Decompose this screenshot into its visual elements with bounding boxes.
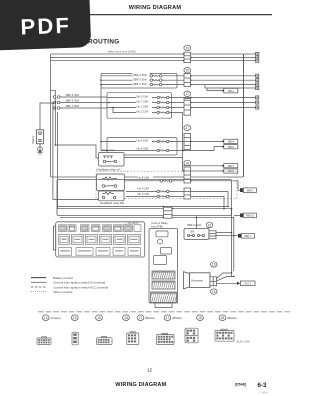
svg-text:No.6 15A: No.6 15A — [137, 146, 149, 150]
generator G1 — [184, 272, 211, 289]
connector icon 18b — [215, 329, 234, 341]
horn relay — [99, 153, 125, 167]
wire No.5 row — [107, 97, 256, 99]
svg-text:12: 12 — [147, 367, 153, 372]
svg-text:ROUTING: ROUTING — [88, 39, 120, 46]
connector block A6 — [184, 188, 191, 199]
node 18b black — [219, 315, 237, 321]
wire top bus 1 extension to terminals — [244, 53, 256, 55]
wire ALT-1 feed — [217, 282, 238, 284]
svg-text:MB-4: MB-4 — [228, 140, 235, 144]
fuse SBF-4 — [150, 75, 162, 78]
svg-text:18: 18 — [198, 316, 202, 320]
svg-text:No.3 15A: No.3 15A — [138, 192, 150, 196]
connector icon 18 — [185, 328, 198, 343]
label box MB-8 — [222, 169, 238, 173]
svg-text:MB-10: MB-10 — [246, 214, 254, 218]
fuse No.2 — [157, 111, 169, 114]
wire SBF-5 row — [60, 102, 107, 104]
node 16b — [123, 315, 130, 321]
svg-text:18: 18 — [186, 161, 190, 165]
wire SBF-7 feed — [216, 235, 238, 237]
svg-text:Headlight relay RH: Headlight relay RH — [100, 201, 124, 205]
svg-text:MB-1: MB-1 — [228, 89, 235, 93]
legend other currents — [31, 290, 73, 294]
connector block A5 — [183, 167, 192, 183]
wire SBF holder feed — [196, 217, 198, 228]
label box MB-7 — [222, 164, 238, 168]
sub-box No.4/No.6 rows — [107, 138, 177, 156]
wire generator to bus diagonals — [217, 273, 234, 281]
junction dots SBF out — [231, 232, 235, 237]
headlight relay LH — [97, 174, 125, 191]
connector 19 circle SBF holder — [206, 222, 213, 227]
fuse row 2 FB — [152, 281, 175, 289]
svg-text:Headlight relay LH: Headlight relay LH — [97, 167, 121, 171]
wire SBF-1 row — [60, 107, 107, 109]
svg-text:16: 16 — [186, 69, 190, 73]
fuse No.9 — [157, 190, 169, 193]
svg-text:ALT-1: ALT-1 — [244, 282, 251, 286]
svg-text:No.9 15A: No.9 15A — [138, 187, 150, 191]
wire terminal 88 — [244, 87, 256, 89]
label box MB-5 — [222, 145, 238, 149]
wire top bus 3 — [50, 60, 255, 62]
label No.8 15A — [137, 176, 153, 180]
connector 16 circle generator bottom — [211, 289, 218, 294]
svg-text:15: 15 — [212, 263, 216, 267]
fuse No.4 — [157, 140, 169, 143]
svg-text:SBF-1 80A: SBF-1 80A — [66, 104, 80, 108]
junction relay RH feed — [52, 102, 54, 104]
svg-text:Horn relay: Horn relay — [101, 148, 115, 152]
svg-text:1 Whe: 1 Whe — [259, 391, 268, 395]
connector icon 14 — [37, 337, 51, 345]
label SBF-5 30A — [65, 98, 83, 102]
label No.9 15A — [137, 187, 153, 191]
MB drawing cell marks row3 — [60, 250, 139, 251]
svg-text:WIRING DIAGRAM: WIRING DIAGRAM — [115, 382, 166, 388]
connector 16 circle rows SBF — [184, 68, 191, 74]
label box MB-10 — [234, 213, 257, 218]
divider dashed — [38, 311, 290, 313]
svg-text:14: 14 — [44, 316, 48, 320]
junction dots bus — [223, 206, 232, 210]
label box MB-9 — [238, 188, 256, 193]
svg-text:17: 17 — [186, 126, 190, 130]
svg-text:No.8 15A: No.8 15A — [138, 176, 150, 180]
wire SBF-6 row — [60, 96, 107, 98]
node 15 — [71, 315, 78, 321]
connector 15 circle generator top — [211, 262, 218, 267]
label pointer no switch — [121, 222, 139, 226]
svg-text:SBF-5 30A: SBF-5 30A — [66, 98, 80, 102]
box A main fuse box outline — [50, 54, 243, 177]
svg-text:box (F/B): box (F/B) — [152, 225, 163, 229]
pointer circle FB — [158, 239, 163, 244]
svg-text:[D5A8]: [D5A8] — [235, 383, 246, 387]
fuse row 1 FB — [152, 271, 175, 279]
svg-text:19: 19 — [208, 223, 212, 227]
svg-text:MB-5: MB-5 — [228, 145, 235, 149]
svg-text:(Green): (Green) — [51, 316, 61, 320]
relay cell 2 — [154, 248, 172, 265]
terminal singles — [256, 96, 259, 99]
junction dots sub-box1 — [100, 79, 102, 85]
connector block rows No4 — [183, 134, 192, 152]
battery wire — [40, 103, 53, 130]
MB drawing cells row2 — [59, 234, 141, 244]
svg-text:18: 18 — [221, 316, 225, 320]
fuse SBF-1 pair — [53, 107, 60, 110]
svg-text:No.7 20A: No.7 20A — [137, 100, 149, 104]
connector icon 16b — [127, 332, 139, 345]
sub-box SBF-4/3/2 rows — [101, 73, 177, 88]
connector block rows SBF — [184, 74, 192, 87]
label SBF-2 50A — [133, 82, 150, 86]
label No.7 20A — [136, 100, 152, 104]
wire group2 extra to terminal — [205, 85, 244, 88]
svg-text:Current from ignition switch I: Current from ignition switch IG terminal — [53, 281, 105, 285]
svg-text:30A: 30A — [190, 230, 195, 233]
label No.4 15A — [136, 139, 152, 143]
legend ACC current — [31, 285, 108, 289]
svg-text:Current from ignition switch A: Current from ignition switch ACC termina… — [53, 285, 108, 289]
fuse No.5 — [157, 96, 169, 99]
terminal group2 — [256, 74, 259, 77]
fuse SBF-3 — [150, 79, 162, 82]
svg-text:Main fuse box (M/B): Main fuse box (M/B) — [108, 50, 136, 54]
svg-text:17: 17 — [186, 92, 190, 96]
label No.3 15A — [137, 192, 153, 196]
wire horn feed — [55, 145, 98, 158]
wire SBF-2 row — [101, 84, 256, 86]
svg-text:16: 16 — [124, 316, 128, 320]
svg-text:No.5 15A: No.5 15A — [137, 95, 149, 99]
svg-text:Battery: Battery — [32, 135, 35, 144]
label SBF-6 30A — [65, 93, 83, 97]
svg-text:SBF-6 30A: SBF-6 30A — [66, 93, 80, 97]
node 17 black — [137, 315, 155, 321]
left bus vertical SBF feed — [50, 90, 55, 145]
label No.2 15A — [136, 110, 152, 114]
svg-text:MB-7: MB-7 — [228, 164, 235, 168]
connector block rows No — [184, 97, 192, 115]
label No.5 15A — [136, 95, 152, 99]
svg-text:(Black): (Black) — [172, 316, 181, 320]
wire relay RH feed — [53, 103, 99, 199]
battery B1 — [37, 130, 44, 144]
fuse row 3 FB — [151, 292, 177, 303]
label box SBF-7 — [238, 234, 254, 239]
connector block SBF holder — [209, 231, 216, 239]
svg-text:WIRING DIAGRAM: WIRING DIAGRAM — [129, 5, 182, 11]
connector 17 circle rows No — [184, 91, 191, 97]
label SBF-1 80A — [65, 104, 83, 108]
svg-text:SBF-4 50A: SBF-4 50A — [133, 73, 147, 77]
svg-text:MB-9: MB-9 — [247, 188, 254, 192]
svg-text:SBF-7: SBF-7 — [244, 234, 252, 238]
junction SBF holder feed — [196, 217, 198, 219]
dashed headlight assembly box — [96, 171, 237, 198]
wire SBF-4 row — [101, 75, 256, 77]
svg-text:15: 15 — [73, 316, 77, 320]
wire MB-8 feed — [183, 170, 223, 172]
connector 17 circle rows No4 — [184, 125, 191, 131]
fuse SBF-2 — [150, 83, 162, 86]
wire horn output — [124, 157, 183, 159]
wire SBF-3 row — [101, 79, 256, 81]
fuse SBF-6 pair — [53, 96, 60, 99]
MB drawing cell marks row1 — [60, 227, 132, 230]
SBF holder U2 — [184, 228, 209, 239]
MB drawing cell marks row2 — [62, 239, 138, 240]
label SBF-4 50A — [133, 73, 150, 77]
headlight relay RH — [99, 191, 125, 201]
wire top bus 2 — [50, 57, 255, 59]
svg-text:Fuse & Relay: Fuse & Relay — [152, 221, 169, 225]
MB drawing cells row3 — [59, 248, 141, 256]
wire No.9 row — [126, 192, 228, 207]
ground — [38, 144, 43, 154]
svg-text:Battery current: Battery current — [53, 276, 73, 280]
svg-text:No.1 20A: No.1 20A — [137, 105, 149, 109]
svg-text:Generator: Generator — [191, 279, 203, 283]
legend battery current — [31, 276, 73, 280]
node 18 — [197, 315, 204, 321]
wire No.7 row — [107, 102, 256, 104]
wire No.2 row — [113, 108, 183, 158]
connector 16 block on top bus — [183, 52, 192, 62]
box C lower outline — [57, 180, 232, 216]
wire No.6 row — [107, 147, 223, 151]
bus wire 3 — [60, 217, 234, 271]
legend IG current — [31, 281, 105, 285]
wire No.4 row — [107, 141, 223, 143]
node 17b black — [164, 315, 182, 321]
svg-text:SBF holder: SBF holder — [187, 223, 201, 227]
wire SBF holder out1 — [216, 231, 232, 233]
junction dots no-rows — [108, 102, 114, 109]
MB drawing cells row1 — [59, 225, 142, 232]
wire No.8 row — [125, 181, 239, 191]
fuse relay box FB outline — [149, 229, 178, 308]
header rule — [25, 14, 272, 16]
fuse No.1 — [157, 106, 169, 109]
connector 18 circle A5 — [184, 160, 191, 166]
node 16 — [96, 315, 103, 321]
wire MB-7 feed — [183, 158, 223, 172]
fuse No.3 — [157, 195, 169, 198]
terminal top group — [256, 52, 259, 55]
label No.1 20A — [136, 105, 152, 109]
fuse No.8 — [160, 180, 172, 183]
sub-box No.5/7/1/2 rows — [107, 93, 172, 119]
connector icon 15 — [72, 332, 78, 345]
wire No.3 row — [126, 196, 224, 208]
fuse No.6 — [157, 149, 169, 152]
svg-text:16: 16 — [186, 46, 190, 50]
svg-text:16: 16 — [97, 316, 101, 320]
svg-text:17: 17 — [166, 316, 170, 320]
svg-text:17: 17 — [139, 316, 143, 320]
svg-text:(Black): (Black) — [145, 316, 154, 320]
label box ALT-1 — [237, 281, 255, 286]
svg-text:SU01-044: SU01-044 — [237, 340, 250, 344]
svg-text:No.4 15A: No.4 15A — [137, 139, 149, 143]
svg-text:16: 16 — [212, 290, 216, 294]
relay cell 1 — [156, 231, 168, 237]
junction dots generator — [231, 272, 235, 277]
connector block bus — [162, 206, 173, 219]
fuse No.7 — [157, 101, 169, 104]
connector icon 17 — [157, 333, 175, 344]
svg-text:SBF-3 50A: SBF-3 50A — [133, 77, 147, 81]
connector 16 circle on top bus — [184, 45, 191, 51]
wire No.1 row — [107, 107, 256, 109]
main fuse box drawing outline — [54, 222, 145, 257]
connector icon 16 — [97, 337, 113, 345]
junction dots SBF bus — [55, 102, 57, 146]
svg-text:SBF-2 50A: SBF-2 50A — [133, 82, 147, 86]
svg-text:No.2 15A: No.2 15A — [137, 110, 149, 114]
svg-text:(Black): (Black) — [227, 316, 236, 320]
svg-text:Other currents: Other currents — [53, 290, 73, 294]
wire right vertical pair — [232, 54, 244, 277]
label No.6 15A — [136, 146, 152, 150]
label box MB-4 — [222, 139, 238, 143]
fuse SBF-5 pair — [53, 101, 60, 104]
connector block generator — [210, 277, 217, 286]
MB drawing cells row1b — [60, 226, 131, 230]
label SBF-3 50A — [133, 77, 150, 81]
feed vertical to sub-box2 — [101, 88, 107, 151]
svg-text:6-3: 6-3 — [258, 382, 268, 389]
node 14 green — [42, 315, 61, 321]
bus wire 2 — [58, 112, 232, 209]
junction dots sub-box2 — [100, 141, 108, 152]
bus wire 1 — [57, 205, 228, 207]
label box MB-1 — [207, 88, 238, 93]
